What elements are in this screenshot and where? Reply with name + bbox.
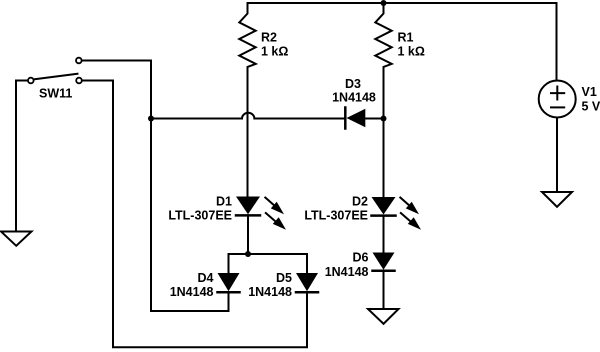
wire hop to D3 cathode xyxy=(254,118,344,120)
svg-text:R2: R2 xyxy=(261,31,277,45)
node A junction xyxy=(148,116,154,122)
resistor R2 xyxy=(239,3,288,119)
svg-text:LTL-307EE: LTL-307EE xyxy=(168,209,232,223)
switch SW11 xyxy=(28,58,82,101)
LED D2 LTL-307EE xyxy=(304,195,421,230)
svg-text:D4: D4 xyxy=(198,271,214,285)
svg-text:1N4148: 1N4148 xyxy=(325,265,369,279)
svg-text:LTL-307EE: LTL-307EE xyxy=(304,209,368,223)
voltage source V1 xyxy=(539,81,600,118)
svg-text:D2: D2 xyxy=(352,195,368,209)
wire D5 cathode down along bottom to switch right pin xyxy=(83,81,308,348)
wire R2 column down to D1 xyxy=(247,119,249,197)
svg-text:1 kΩ: 1 kΩ xyxy=(398,45,425,59)
wire switch left pin to ground xyxy=(16,81,27,232)
wire D6 cathode to ground xyxy=(383,271,385,309)
svg-text:1 kΩ: 1 kΩ xyxy=(261,45,288,59)
svg-text:D6: D6 xyxy=(353,251,369,265)
svg-text:1N4148: 1N4148 xyxy=(170,285,214,299)
wire right rail down to V1 xyxy=(556,3,558,80)
LED D1 LTL-307EE xyxy=(168,195,286,230)
wire node B down to D2 xyxy=(383,119,385,198)
svg-text:D5: D5 xyxy=(276,271,292,285)
wire D2 cathode to D6 anode xyxy=(383,216,385,253)
node top rail / R1 junction xyxy=(381,0,387,6)
node C junction (D1 / D4 / D5) xyxy=(245,251,251,257)
wire D1 cathode to node C xyxy=(247,215,249,254)
ground (bottom, under D6) xyxy=(368,309,399,324)
diode D6 1N4148 xyxy=(325,251,395,280)
ground (left, under SW11) xyxy=(1,232,32,246)
svg-text:D1: D1 xyxy=(216,195,232,209)
wire node C rail to D4 and D5 anodes xyxy=(229,254,308,273)
wire V1 to ground xyxy=(556,119,558,193)
svg-text:R1: R1 xyxy=(398,31,414,45)
wire node A to hop xyxy=(151,118,242,120)
wire node A down and around to D4 cathode xyxy=(151,119,229,312)
svg-text:5 V: 5 V xyxy=(582,100,600,114)
resistor R1 xyxy=(375,3,425,119)
wire top rail from R2 to V1 xyxy=(248,2,557,4)
node B junction (D3 / R1 / D2) xyxy=(381,116,387,122)
svg-text:V1: V1 xyxy=(582,85,597,99)
diode D5 1N4148 xyxy=(248,271,318,299)
ground (right, under V1) xyxy=(542,192,572,207)
svg-text:1N4148: 1N4148 xyxy=(248,285,292,299)
diode D3 1N4148 xyxy=(332,77,383,129)
svg-text:1N4148: 1N4148 xyxy=(332,91,376,105)
diode D4 1N4148 xyxy=(170,271,240,299)
wire hop over R2 column xyxy=(242,113,254,119)
wire switch top pin to node A column xyxy=(82,61,151,116)
svg-text:D3: D3 xyxy=(345,77,361,91)
svg-text:SW11: SW11 xyxy=(39,87,72,101)
